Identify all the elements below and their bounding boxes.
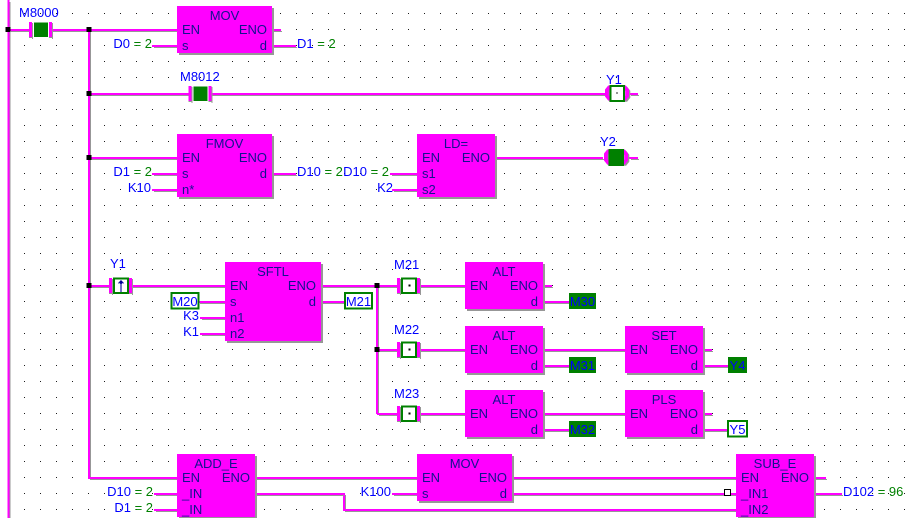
- wire MOV2 d to SUB_E IN1: [512, 493, 737, 496]
- function block ALT U6: [465, 326, 545, 375]
- svg-text:s: s: [422, 486, 429, 501]
- wire M20 box to SFTL s: [198, 301, 226, 304]
- wire LD ENO to Y2 coil: [495, 157, 604, 160]
- function block ADD_E U10: [177, 454, 257, 518]
- svg-text:K2: K2: [377, 180, 393, 195]
- wire branch to FMOV EN: [88, 157, 178, 160]
- wire D0 operand to MOV s: [152, 45, 178, 48]
- wire ADD_E ENO to MOV2 EN: [255, 477, 418, 480]
- function block SFTL U4: [225, 262, 323, 343]
- wire K10 to FMOV n: [152, 189, 178, 192]
- wire SUB_E out to D102 operand: [814, 493, 843, 496]
- svg-text:d: d: [260, 38, 267, 53]
- svg-text:ALT: ALT: [493, 328, 516, 343]
- junction node (8,29): [6, 27, 11, 32]
- wire branch vertical x377: [376, 285, 379, 415]
- svg-text:M21: M21: [346, 294, 371, 309]
- svg-text:_IN2: _IN2: [740, 502, 768, 517]
- wire ALT1 d to M30: [543, 301, 570, 304]
- svg-text:EN: EN: [470, 342, 488, 357]
- contact M8000: [29, 22, 53, 39]
- junction node (89,93): [87, 91, 92, 96]
- svg-text:D1 = 2: D1 = 2: [113, 164, 152, 179]
- wire corner to SUB_E IN2: [343, 509, 737, 512]
- svg-text:EN: EN: [182, 22, 200, 37]
- svg-text:M8000: M8000: [19, 5, 59, 20]
- wire D10 operand to ADD_E IN1: [154, 493, 178, 496]
- svg-text:d: d: [531, 358, 538, 373]
- svg-text:ENO: ENO: [510, 342, 538, 357]
- function block LD= U3: [417, 134, 497, 199]
- svg-text:D10 = 2: D10 = 2: [343, 164, 389, 179]
- svg-text:MOV: MOV: [450, 456, 480, 471]
- wire MOV d to D1 operand: [272, 45, 297, 48]
- svg-text:ENO: ENO: [222, 470, 250, 485]
- svg-text:D1 = 2: D1 = 2: [297, 36, 336, 51]
- wire ADD_E out to corner: [255, 493, 344, 496]
- svg-text:K100: K100: [361, 484, 391, 499]
- wire K2 to LD s2: [392, 189, 418, 192]
- svg-text:SFTL: SFTL: [257, 264, 289, 279]
- function block SET U7: [625, 326, 705, 375]
- junction node (377,285): [375, 283, 380, 288]
- svg-text:K10: K10: [128, 180, 151, 195]
- wire MOV ENO stub: [272, 29, 282, 32]
- svg-text:n*: n*: [182, 182, 194, 197]
- junction node (89,29): [87, 27, 92, 32]
- wire branch to Y1 contact to SFTL EN: [88, 285, 226, 288]
- wire K100 to MOV2 s: [392, 493, 418, 496]
- wire branch to M22 contact to ALT2 EN: [377, 349, 466, 352]
- wire branch to M8012 to Y1 coil: [88, 93, 606, 96]
- svg-text:s: s: [230, 294, 237, 309]
- wire SUB_E ENO stub: [814, 477, 827, 480]
- svg-text:ENO: ENO: [479, 470, 507, 485]
- svg-text:ENO: ENO: [510, 406, 538, 421]
- svg-text:K1: K1: [183, 324, 199, 339]
- svg-text:s: s: [182, 166, 189, 181]
- svg-text:n1: n1: [230, 310, 244, 325]
- svg-text:EN: EN: [741, 470, 759, 485]
- function block FMOV U2: [177, 134, 274, 199]
- svg-text:ENO: ENO: [670, 342, 698, 357]
- svg-text:M23: M23: [394, 386, 419, 401]
- wire FMOV d to D10 operand: [272, 173, 297, 176]
- svg-text:M31: M31: [570, 358, 595, 373]
- wire ALT3 ENO to PLS EN: [543, 413, 626, 416]
- left power rail: [8, 0, 11, 518]
- svg-text:ENO: ENO: [670, 406, 698, 421]
- function block MOV U11: [417, 454, 514, 503]
- svg-text:s2: s2: [422, 182, 436, 197]
- wire SFTL d to M21 box: [321, 301, 346, 304]
- wire branch to M23 contact to ALT3 EN: [377, 413, 466, 416]
- wire D1 operand to FMOV s: [152, 173, 178, 176]
- wire SET d to Y4: [703, 365, 729, 368]
- svg-text:_IN1: _IN1: [740, 486, 768, 501]
- wire K3 to SFTL n1: [200, 317, 226, 320]
- svg-text:ADD_E: ADD_E: [194, 456, 238, 471]
- svg-text:MOV: MOV: [210, 8, 240, 23]
- operand box M20 input: [172, 293, 199, 309]
- coil Y2: [604, 150, 629, 166]
- svg-text:LD=: LD=: [444, 136, 468, 151]
- svg-text:d: d: [531, 294, 538, 309]
- svg-text:EN: EN: [230, 278, 248, 293]
- contact M8012: [189, 86, 213, 103]
- wire ALT2 ENO to SET EN: [543, 349, 626, 352]
- wire PLS d to Y5: [703, 429, 729, 432]
- svg-text:M32: M32: [570, 422, 595, 437]
- wire K1 to SFTL n2: [200, 333, 226, 336]
- wire branch vertical x88: [88, 29, 91, 479]
- wire SFTL ENO to M21 contact to ALT1 EN: [321, 285, 466, 288]
- svg-text:d: d: [691, 358, 698, 373]
- junction node (377,349): [375, 347, 380, 352]
- svg-text:FMOV: FMOV: [206, 136, 244, 151]
- wire D1 operand to ADD_E IN2: [154, 509, 178, 512]
- contact Y1 pulse: [109, 278, 133, 295]
- wire ALT1 ENO stub: [543, 285, 553, 288]
- svg-text:n2: n2: [230, 326, 244, 341]
- junction node (89,285): [87, 283, 92, 288]
- junction node (89,157): [87, 155, 92, 160]
- svg-text:d: d: [260, 166, 267, 181]
- wire Y2 coil stub: [629, 157, 639, 160]
- svg-text:D1 = 2: D1 = 2: [114, 500, 153, 515]
- svg-text:EN: EN: [630, 342, 648, 357]
- function block ALT U5: [465, 262, 545, 311]
- function block SUB_E U12: [736, 454, 816, 518]
- svg-text:M8012: M8012: [180, 69, 220, 84]
- svg-text:d: d: [309, 294, 316, 309]
- svg-text:s1: s1: [422, 166, 436, 181]
- operand box M32: [569, 421, 596, 437]
- wire ALT3 d to M32: [543, 429, 570, 432]
- contact M22: [397, 342, 421, 359]
- operand box M31: [569, 357, 596, 373]
- svg-text:s: s: [182, 38, 189, 53]
- svg-text:ENO: ENO: [239, 150, 267, 165]
- svg-text:Y1: Y1: [110, 256, 126, 271]
- function block MOV U1: [177, 6, 274, 55]
- svg-text:D0 = 2: D0 = 2: [113, 36, 152, 51]
- wire MOV2 ENO to SUB_E EN: [512, 477, 737, 480]
- svg-text:EN: EN: [470, 406, 488, 421]
- contact M23: [397, 406, 421, 423]
- wire PLS ENO stub: [703, 413, 713, 416]
- svg-text:SET: SET: [651, 328, 676, 343]
- svg-text:d: d: [500, 486, 507, 501]
- function block PLS U9: [625, 390, 705, 439]
- svg-text:M22: M22: [394, 322, 419, 337]
- svg-text:D102 = 96: D102 = 96: [843, 484, 903, 499]
- svg-text:_IN: _IN: [181, 486, 202, 501]
- svg-text:EN: EN: [470, 278, 488, 293]
- svg-text:D10 = 2: D10 = 2: [107, 484, 153, 499]
- svg-text:ENO: ENO: [462, 150, 490, 165]
- svg-text:M20: M20: [172, 294, 197, 309]
- svg-text:ALT: ALT: [493, 392, 516, 407]
- svg-text:EN: EN: [422, 470, 440, 485]
- operand box Y5: [728, 421, 747, 437]
- svg-text:D10 = 2: D10 = 2: [297, 164, 343, 179]
- svg-text:SUB_E: SUB_E: [754, 456, 797, 471]
- svg-text:_IN: _IN: [181, 502, 202, 517]
- contact M21: [397, 278, 421, 295]
- svg-text:M30: M30: [570, 294, 595, 309]
- operand box M21 output: [345, 293, 372, 309]
- svg-text:ENO: ENO: [510, 278, 538, 293]
- wire rail to MOV EN row1: [9, 29, 178, 32]
- svg-text:ENO: ENO: [781, 470, 809, 485]
- wire SET ENO stub: [703, 349, 713, 352]
- svg-text:Y5: Y5: [730, 422, 746, 437]
- svg-text:Y4: Y4: [730, 358, 746, 373]
- svg-text:EN: EN: [182, 150, 200, 165]
- wire ALT2 d to M31: [543, 365, 570, 368]
- svg-text:ALT: ALT: [493, 264, 516, 279]
- svg-text:d: d: [691, 422, 698, 437]
- connection marker square on SUB_E _IN1 wire: [725, 490, 731, 496]
- function block ALT U8: [465, 390, 545, 439]
- wire D10 operand to LD s1: [390, 173, 418, 176]
- svg-text:ENO: ENO: [239, 22, 267, 37]
- operand box Y4: [728, 357, 747, 373]
- wire branch corner to ADD_E EN: [88, 477, 178, 480]
- operand box M30: [569, 293, 596, 309]
- svg-text:M21: M21: [394, 257, 419, 272]
- svg-text:d: d: [531, 422, 538, 437]
- svg-text:Y1: Y1: [606, 72, 622, 87]
- wire corner vertical x343: [343, 493, 346, 511]
- svg-text:EN: EN: [182, 470, 200, 485]
- coil Y1: [605, 86, 630, 102]
- svg-text:PLS: PLS: [652, 392, 677, 407]
- svg-text:EN: EN: [630, 406, 648, 421]
- svg-text:ENO: ENO: [288, 278, 316, 293]
- wire Y1 coil stub: [629, 93, 639, 96]
- svg-text:EN: EN: [422, 150, 440, 165]
- svg-text:K3: K3: [183, 308, 199, 323]
- svg-text:Y2: Y2: [600, 134, 616, 149]
